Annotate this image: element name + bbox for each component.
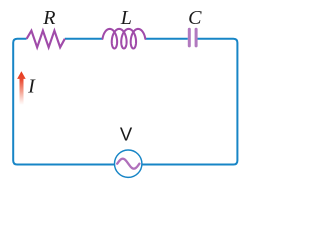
- wire: left side + bottom-left run to AC source: [13, 39, 115, 165]
- svg-text:V: V: [120, 124, 133, 145]
- wire: top segment between inductor and capacitor: [145, 38, 188, 40]
- svg-text:R: R: [42, 7, 55, 29]
- wire: top segment between resistor and inductor: [65, 38, 103, 40]
- svg-text:I: I: [27, 76, 36, 98]
- capacitor C plate 2: [195, 29, 198, 46]
- resistor R: [27, 31, 65, 48]
- inductor L: [103, 29, 146, 49]
- wire: capacitor to right side down to AC source: [127, 39, 237, 165]
- current arrow I: [17, 71, 26, 104]
- svg-text:L: L: [120, 7, 132, 29]
- capacitor C plate 1: [188, 29, 191, 46]
- AC source sine wave: [117, 159, 139, 169]
- AC source circle: [115, 150, 142, 177]
- svg-text:C: C: [188, 7, 202, 29]
